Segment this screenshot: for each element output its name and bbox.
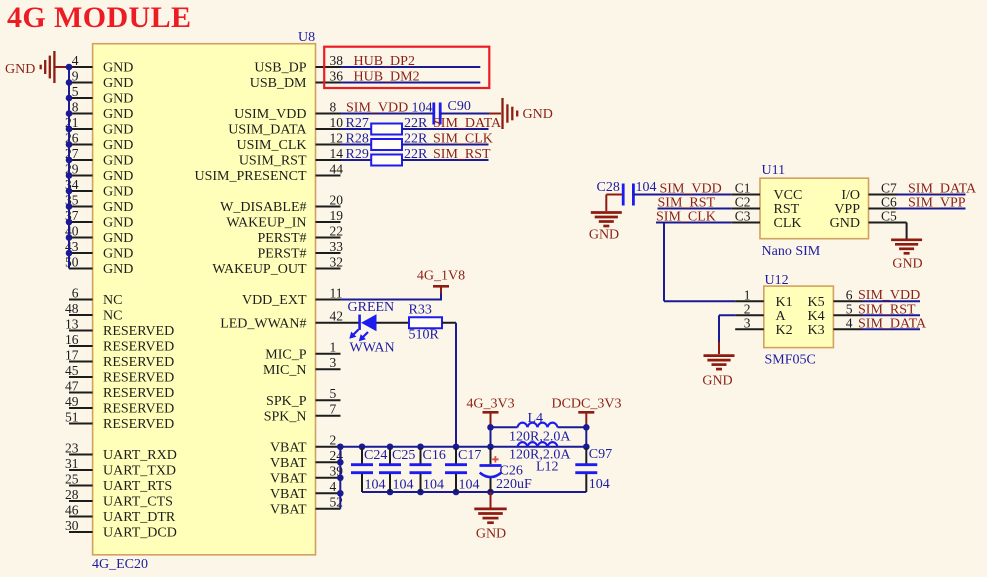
svg-text:5: 5 <box>846 302 853 317</box>
U11 pin C2 (RST) <box>732 194 800 217</box>
svg-text:GND: GND <box>103 92 133 107</box>
svg-text:L12: L12 <box>536 459 559 474</box>
svg-text:Nano SIM: Nano SIM <box>762 244 821 259</box>
svg-text:4: 4 <box>846 316 853 331</box>
capacitor C17 104 <box>445 448 481 493</box>
wire VBAT pin bus vertical <box>337 443 344 508</box>
diode-array U12 SMF05C body <box>764 286 834 348</box>
wire GND bus vertical <box>68 67 70 269</box>
svg-text:U12: U12 <box>765 273 789 288</box>
svg-text:GND: GND <box>103 231 133 246</box>
svg-text:WWAN: WWAN <box>350 341 395 356</box>
svg-text:U11: U11 <box>762 163 786 178</box>
svg-text:VBAT: VBAT <box>270 471 307 486</box>
svg-text:GND: GND <box>103 247 133 262</box>
svg-text:GND: GND <box>892 256 922 271</box>
svg-text:USIM_VDD: USIM_VDD <box>234 107 306 122</box>
U8 pin 52 (VBAT) right <box>270 495 343 518</box>
wire decoupling bottom rail <box>362 489 586 496</box>
svg-text:K4: K4 <box>807 309 824 324</box>
U12 pin 4 wire net SIM_DATA <box>833 316 927 332</box>
U8 pin 46 (UART_DTR) left <box>65 502 176 525</box>
svg-text:49: 49 <box>65 394 79 409</box>
svg-text:GND: GND <box>830 216 860 231</box>
svg-text:16: 16 <box>65 332 79 347</box>
svg-text:I/O: I/O <box>841 188 860 203</box>
wire net SIM_CLK <box>402 131 493 146</box>
wire VBAT rail horizontal <box>340 443 589 450</box>
U8 value label 4G_EC20 <box>92 557 148 572</box>
U12 pin 3 (K2) <box>735 316 824 339</box>
svg-text:104: 104 <box>393 478 414 493</box>
U8 pin 19 (WAKEUP_IN) right <box>226 208 343 231</box>
inductor L12 120R,2.0A <box>509 442 571 474</box>
wire 4G_3V3 node down to rail <box>490 427 492 446</box>
svg-text:38: 38 <box>330 53 344 68</box>
U8 pin 8 (GND) left <box>69 99 133 122</box>
U11 designator <box>762 163 786 178</box>
power 4G_1V8 <box>417 269 465 294</box>
resistor R28 22R <box>341 131 429 150</box>
svg-text:RESERVED: RESERVED <box>103 340 174 355</box>
svg-text:14: 14 <box>330 146 344 161</box>
svg-text:2: 2 <box>744 302 751 317</box>
wire C28 to GND <box>606 195 622 212</box>
svg-text:GND: GND <box>702 373 732 388</box>
U8 pin 26 (GND) left <box>65 130 133 153</box>
svg-text:32: 32 <box>330 254 344 269</box>
svg-text:RESERVED: RESERVED <box>103 417 174 432</box>
svg-text:C97: C97 <box>589 447 612 462</box>
svg-text:USB_DP: USB_DP <box>254 61 306 76</box>
svg-text:48: 48 <box>65 301 79 316</box>
U8 pin 6 (NC) left <box>69 285 122 308</box>
svg-text:RESERVED: RESERVED <box>103 355 174 370</box>
svg-text:SIM_DATA: SIM_DATA <box>908 181 977 196</box>
U8 pin 24 (VBAT) right <box>270 448 343 471</box>
svg-text:GND: GND <box>103 200 133 215</box>
svg-text:5: 5 <box>330 386 337 401</box>
svg-text:USB_DM: USB_DM <box>250 76 307 91</box>
wire net HUB_DM2 (pin 36) <box>341 69 481 84</box>
svg-text:K5: K5 <box>807 295 824 310</box>
svg-text:WAKEUP_IN: WAKEUP_IN <box>226 216 306 231</box>
svg-text:VDD_EXT: VDD_EXT <box>242 293 307 308</box>
svg-text:C90: C90 <box>448 99 471 114</box>
svg-text:NC: NC <box>103 309 122 324</box>
wire net SIM_CLK to U11.C3 <box>656 209 732 224</box>
ground GND (right of C90, sideways) <box>503 98 553 129</box>
svg-text:RESERVED: RESERVED <box>103 402 174 417</box>
U8 pin 39 (VBAT) right <box>270 464 343 487</box>
svg-text:VBAT: VBAT <box>270 440 307 455</box>
svg-text:VBAT: VBAT <box>270 456 307 471</box>
svg-text:SPK_P: SPK_P <box>266 394 307 409</box>
svg-text:22: 22 <box>330 223 344 238</box>
svg-text:UART_DTR: UART_DTR <box>103 510 176 525</box>
svg-text:GREEN: GREEN <box>348 300 395 315</box>
svg-text:U8: U8 <box>298 30 315 45</box>
U8 pin 37 (GND) left <box>65 208 133 231</box>
svg-text:A: A <box>776 309 787 324</box>
svg-text:6: 6 <box>72 285 79 300</box>
wire VDD_EXT pin 11 to 4G_1V8 <box>341 293 442 301</box>
U11 pin C3 (CLK) <box>732 208 802 231</box>
svg-text:19: 19 <box>330 208 344 223</box>
svg-text:44: 44 <box>330 161 344 176</box>
svg-text:PERST#: PERST# <box>257 247 306 262</box>
U8 pin 2 (VBAT) right <box>270 433 341 456</box>
svg-text:GND: GND <box>5 62 35 77</box>
svg-text:RESERVED: RESERVED <box>103 371 174 386</box>
power DCDC_3V3 <box>551 397 621 428</box>
svg-text:WAKEUP_OUT: WAKEUP_OUT <box>212 262 307 277</box>
svg-text:220uF: 220uF <box>496 477 532 492</box>
svg-text:9: 9 <box>72 68 79 83</box>
svg-text:51: 51 <box>65 409 79 424</box>
svg-text:MIC_P: MIC_P <box>265 347 306 362</box>
U8 pin 14 (USIM_RST) right <box>239 146 343 169</box>
ground GND (below U12) <box>702 356 734 389</box>
svg-text:7: 7 <box>330 402 337 417</box>
svg-text:47: 47 <box>65 378 79 393</box>
svg-text:2: 2 <box>330 433 337 448</box>
svg-text:MIC_N: MIC_N <box>263 363 307 378</box>
svg-text:C24: C24 <box>364 448 387 463</box>
wire net SIM_DATA (U11.C7) <box>897 181 977 196</box>
svg-text:UART_CTS: UART_CTS <box>103 495 173 510</box>
U8 pin 43 (GND) left <box>65 239 133 262</box>
svg-text:SIM_CLK: SIM_CLK <box>656 209 716 224</box>
svg-text:SPK_N: SPK_N <box>264 409 307 424</box>
svg-text:UART_DCD: UART_DCD <box>103 526 177 541</box>
ground GND (left of U8) <box>5 51 69 83</box>
svg-text:C17: C17 <box>458 448 481 463</box>
svg-text:GND: GND <box>103 154 133 169</box>
svg-text:SIM_DATA: SIM_DATA <box>858 316 927 331</box>
U8 pin 7 (SPK_N) right <box>264 402 341 425</box>
svg-text:13: 13 <box>65 316 79 331</box>
U8 pin 36 (USB_DM) right <box>250 68 344 91</box>
power 4G_3V3 <box>466 397 514 428</box>
U8 pin 17 (RESERVED) left <box>65 347 174 370</box>
svg-text:8: 8 <box>72 99 79 114</box>
svg-text:104: 104 <box>365 478 386 493</box>
svg-text:4G_EC20: 4G_EC20 <box>92 557 148 572</box>
svg-text:GND: GND <box>103 61 133 76</box>
svg-text:12: 12 <box>330 130 344 145</box>
U8 pin 23 (UART_RXD) left <box>65 440 177 463</box>
svg-text:VCC: VCC <box>774 188 803 203</box>
op-amp U8 body (4G_EC20 module) <box>93 44 316 555</box>
U8 pin 50 (GND) left <box>65 254 133 277</box>
U12 value SMF05C <box>765 352 816 367</box>
svg-text:28: 28 <box>65 487 79 502</box>
svg-text:30: 30 <box>65 518 79 533</box>
U11 pin C7 (I/O) <box>841 180 897 203</box>
svg-text:USIM_RST: USIM_RST <box>239 154 307 169</box>
svg-text:PERST#: PERST# <box>257 231 306 246</box>
U8 pin 22 (PERST#) right <box>257 223 343 246</box>
svg-text:SIM_RST: SIM_RST <box>433 147 491 162</box>
svg-text:SIM_VPP: SIM_VPP <box>908 195 966 210</box>
svg-text:17: 17 <box>65 347 79 362</box>
U8 pin 8 (USIM_VDD) right <box>234 99 340 122</box>
U12 designator <box>765 273 789 288</box>
wire R33 to VBAT rail <box>442 323 456 447</box>
U8 pin 20 (W_DISABLE#) right <box>220 192 343 215</box>
U8 pin 13 (RESERVED) left <box>65 316 174 339</box>
svg-text:NC: NC <box>103 293 122 308</box>
svg-text:SIM_CLK: SIM_CLK <box>433 131 493 146</box>
svg-text:UART_TXD: UART_TXD <box>103 464 176 479</box>
ground GND (below U11) <box>891 240 923 271</box>
resistor R27 22R <box>341 116 429 135</box>
svg-text:4G MODULE: 4G MODULE <box>7 1 191 34</box>
svg-text:23: 23 <box>65 440 79 455</box>
svg-text:USIM_CLK: USIM_CLK <box>236 138 306 153</box>
svg-text:SIM_DATA: SIM_DATA <box>433 116 502 131</box>
capacitor C28 104 <box>597 180 657 206</box>
U8 pin 47 (RESERVED) left <box>65 378 174 401</box>
capacitor C24 104 <box>351 448 387 493</box>
U12 pin 2 (A) <box>735 302 824 325</box>
svg-text:104: 104 <box>459 478 480 493</box>
U11 value Nano SIM <box>762 244 821 259</box>
U8 pin 51 (RESERVED) left <box>65 409 174 432</box>
svg-text:1: 1 <box>330 340 337 355</box>
U8 pin 35 (GND) left <box>65 192 133 215</box>
svg-text:UART_RXD: UART_RXD <box>103 448 177 463</box>
svg-text:RESERVED: RESERVED <box>103 386 174 401</box>
svg-text:K1: K1 <box>776 295 793 310</box>
U12 pin 5 wire net SIM_RST <box>833 302 920 318</box>
capacitor C16 104 <box>410 448 446 493</box>
wire net SIM_VDD to U11.C1 <box>633 181 731 196</box>
svg-text:SMF05C: SMF05C <box>765 352 816 367</box>
svg-text:42: 42 <box>330 309 344 324</box>
svg-text:K2: K2 <box>776 323 793 338</box>
svg-text:GND: GND <box>103 169 133 184</box>
connector U11 Nano SIM body <box>760 178 869 239</box>
U8 pin 38 (USB_DP) right <box>254 53 343 76</box>
U8 pin 29 (GND) left <box>65 161 133 184</box>
U8 pin 30 (UART_DCD) left <box>65 518 177 541</box>
svg-text:HUB_DM2: HUB_DM2 <box>354 69 420 84</box>
U8 pin 3 (MIC_N) right <box>263 355 341 378</box>
U8 pin 10 (USIM_DATA) right <box>228 115 343 138</box>
U11 pin C6 (VPP) <box>834 194 897 217</box>
svg-text:DCDC_3V3: DCDC_3V3 <box>551 397 621 412</box>
svg-text:8: 8 <box>330 99 337 114</box>
svg-text:HUB_DP2: HUB_DP2 <box>354 54 415 69</box>
svg-text:104: 104 <box>412 100 433 115</box>
svg-text:R33: R33 <box>409 303 432 318</box>
U8 pin 48 (NC) left <box>65 301 122 324</box>
svg-text:CLK: CLK <box>774 216 802 231</box>
wire U12 pin2 (A) to GND <box>719 315 735 354</box>
U8 pin 42 (LED_WWAN#) right <box>220 309 343 332</box>
junction dots on GND bus <box>66 64 73 257</box>
U8 pin 27 (GND) left <box>65 146 133 169</box>
wire SIM_CLK branch down to U12 pin 1 <box>664 223 735 302</box>
svg-text:SIM_VDD: SIM_VDD <box>346 100 408 115</box>
U11 pin C1 (VCC) <box>732 180 803 203</box>
svg-text:510R: 510R <box>409 328 440 343</box>
svg-text:C25: C25 <box>392 448 415 463</box>
U8 pin 25 (UART_RTS) left <box>65 471 172 494</box>
svg-text:UART_RTS: UART_RTS <box>103 479 172 494</box>
svg-text:VBAT: VBAT <box>270 502 307 517</box>
svg-text:RESERVED: RESERVED <box>103 324 174 339</box>
inductor L4 120R,2.0A <box>487 411 589 445</box>
svg-text:20: 20 <box>330 192 344 207</box>
capacitor C90 <box>434 99 471 125</box>
ground GND (below C26) <box>474 492 506 541</box>
svg-text:K3: K3 <box>807 323 824 338</box>
svg-text:C16: C16 <box>423 448 446 463</box>
capacitor C26 220uF (polarized) <box>480 448 533 492</box>
svg-text:RST: RST <box>774 202 800 217</box>
svg-text:W_DISABLE#: W_DISABLE# <box>220 200 306 215</box>
U8 pin 34 (GND) left <box>65 177 133 200</box>
U8 pin 5 (GND) left <box>69 84 133 107</box>
svg-text:C3: C3 <box>735 208 751 223</box>
svg-text:1: 1 <box>744 287 751 302</box>
svg-text:C1: C1 <box>735 180 751 195</box>
U8 pin 5 (SPK_P) right <box>266 386 340 409</box>
capacitor C25 104 <box>379 448 415 493</box>
U8 pin 28 (UART_CTS) left <box>65 487 173 510</box>
svg-text:C2: C2 <box>735 194 751 209</box>
U8 designator label <box>298 30 315 45</box>
svg-text:GND: GND <box>523 107 553 122</box>
svg-text:11: 11 <box>330 285 343 300</box>
svg-text:GND: GND <box>589 228 619 243</box>
svg-text:GND: GND <box>103 123 133 138</box>
svg-text:SIM_VDD: SIM_VDD <box>660 181 722 196</box>
U8 pin 9 (GND) left <box>69 68 133 91</box>
U8 pin 49 (RESERVED) left <box>65 394 174 417</box>
wire net SIM_VPP (U11.C6) <box>897 195 966 210</box>
wire net SIM_DATA <box>402 116 502 131</box>
U8 pin 31 (UART_TXD) left <box>65 456 176 479</box>
svg-text:VBAT: VBAT <box>270 487 307 502</box>
wire C90 to GND <box>440 113 501 115</box>
svg-text:GND: GND <box>103 185 133 200</box>
svg-text:USIM_PRESENCT: USIM_PRESENCT <box>194 169 306 184</box>
capacitor C97 104 <box>575 447 612 492</box>
svg-text:SIM_RST: SIM_RST <box>658 195 716 210</box>
title 4G MODULE <box>7 1 191 34</box>
wire LED to R33 <box>377 322 410 324</box>
wire DCDC node down to rail <box>585 427 587 446</box>
svg-text:SIM_RST: SIM_RST <box>858 302 916 317</box>
svg-text:36: 36 <box>330 68 344 83</box>
svg-text:GND: GND <box>103 76 133 91</box>
svg-text:VPP: VPP <box>834 202 860 217</box>
svg-text:C6: C6 <box>881 194 897 209</box>
svg-text:SIM_VDD: SIM_VDD <box>858 288 920 303</box>
U8 pin 1 (MIC_P) right <box>265 340 340 363</box>
wire net HUB_DP2 (pin 38) <box>341 54 481 69</box>
svg-text:104: 104 <box>589 477 610 492</box>
U8 pin 4 (GND) left <box>69 53 133 76</box>
svg-text:10: 10 <box>330 115 344 130</box>
wire net SIM_RST <box>402 147 491 162</box>
U8 pin 21 (GND) left <box>65 115 133 138</box>
svg-text:4: 4 <box>330 479 337 494</box>
resistor R33 510R <box>409 303 443 343</box>
svg-text:4: 4 <box>72 53 79 68</box>
svg-text:GND: GND <box>103 216 133 231</box>
svg-text:GND: GND <box>103 262 133 277</box>
svg-text:C28: C28 <box>597 180 620 195</box>
svg-text:4G_3V3: 4G_3V3 <box>466 397 514 412</box>
svg-text:6: 6 <box>846 287 853 302</box>
svg-text:LED_WWAN#: LED_WWAN# <box>220 316 306 331</box>
LED D? GREEN (WWAN) <box>341 300 395 356</box>
svg-text:C5: C5 <box>881 208 897 223</box>
svg-text:46: 46 <box>65 502 79 517</box>
svg-text:31: 31 <box>65 456 79 471</box>
wire U11.C5 to GND <box>897 223 907 239</box>
U8 pin 45 (RESERVED) left <box>65 363 174 386</box>
U8 pin 32 (WAKEUP_OUT) right <box>212 254 343 277</box>
U8 pin 16 (RESERVED) left <box>65 332 174 355</box>
highlight box around HUB nets <box>324 47 489 88</box>
U8 pin 11 (VDD_EXT) right <box>242 285 343 308</box>
wire net SIM_RST to U11.C2 <box>658 195 732 210</box>
svg-text:3: 3 <box>330 355 337 370</box>
wire net SIM_VDD (pin 8) <box>341 100 434 115</box>
U8 pin 4 (VBAT) right <box>270 479 341 502</box>
svg-text:5: 5 <box>72 84 79 99</box>
svg-text:3: 3 <box>744 316 751 331</box>
U8 pin 40 (GND) left <box>65 223 133 246</box>
resistor R29 22R <box>341 147 429 166</box>
svg-text:104: 104 <box>423 478 444 493</box>
svg-text:GND: GND <box>476 526 506 541</box>
svg-text:USIM_DATA: USIM_DATA <box>228 123 307 138</box>
U8 pin 33 (PERST#) right <box>257 239 343 262</box>
svg-text:C7: C7 <box>881 180 897 195</box>
U8 pin 12 (USIM_CLK) right <box>236 130 343 153</box>
svg-text:33: 33 <box>330 239 344 254</box>
svg-text:25: 25 <box>65 471 79 486</box>
U11 pin C5 (GND) <box>830 208 897 231</box>
svg-text:50: 50 <box>65 254 79 269</box>
ground GND (left of U11) <box>589 213 622 243</box>
U8 pin 44 (USIM_PRESENCT) right <box>194 161 343 184</box>
U12 pin 6 wire net SIM_VDD <box>833 287 920 303</box>
svg-text:4G_1V8: 4G_1V8 <box>417 269 465 284</box>
svg-text:GND: GND <box>103 107 133 122</box>
svg-text:GND: GND <box>103 138 133 153</box>
U12 pin 1 (K1) <box>735 287 824 310</box>
svg-text:45: 45 <box>65 363 79 378</box>
svg-text:104: 104 <box>636 180 657 195</box>
